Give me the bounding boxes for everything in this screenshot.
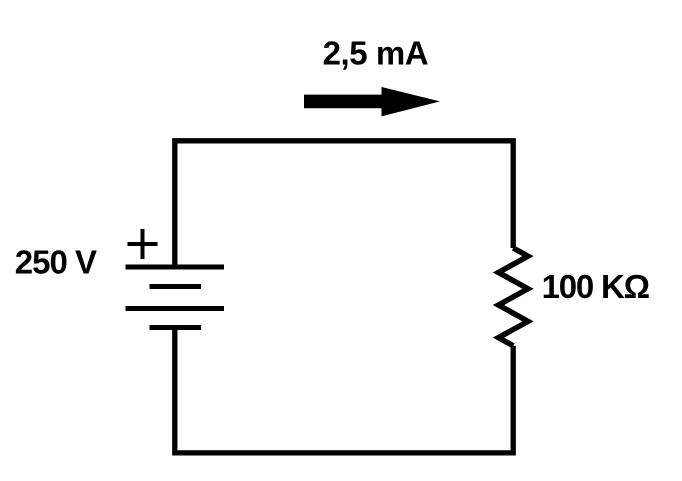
svg-text:100 KΩ: 100 KΩ — [542, 268, 650, 305]
svg-text:2,5 mA: 2,5 mA — [323, 34, 429, 71]
svg-text:250 V: 250 V — [15, 243, 97, 280]
